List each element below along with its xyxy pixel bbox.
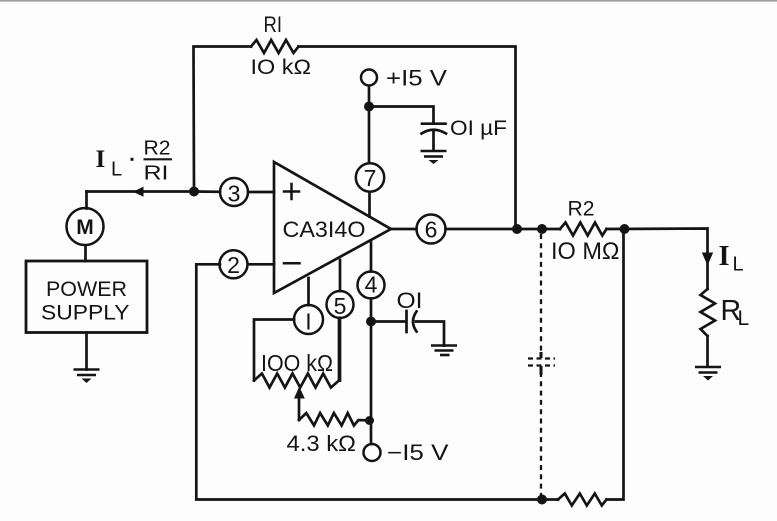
svg-text:I: I — [719, 241, 730, 272]
svg-text:R2: R2 — [568, 198, 595, 221]
svg-text:R2: R2 — [144, 138, 171, 160]
svg-text:4.3 kΩ: 4.3 kΩ — [287, 431, 357, 456]
svg-text:RI: RI — [264, 12, 283, 37]
svg-text:IO MΩ: IO MΩ — [551, 238, 620, 265]
svg-text:IO kΩ: IO kΩ — [251, 56, 312, 79]
svg-text:IOO kΩ: IOO kΩ — [261, 350, 333, 376]
svg-text:I: I — [305, 309, 311, 335]
svg-text:L: L — [733, 254, 744, 276]
svg-text:2: 2 — [227, 252, 240, 278]
svg-text:5: 5 — [334, 293, 347, 319]
svg-text:L: L — [738, 307, 750, 330]
svg-text:3: 3 — [228, 181, 241, 207]
svg-text:7: 7 — [364, 165, 377, 191]
svg-text:+I5 V: +I5 V — [386, 66, 447, 91]
svg-text:6: 6 — [425, 217, 438, 243]
svg-text:L: L — [111, 159, 122, 181]
svg-text:4: 4 — [365, 272, 378, 298]
svg-text:SUPPLY: SUPPLY — [41, 301, 130, 325]
svg-text:CA3I4O: CA3I4O — [283, 217, 366, 242]
svg-text:RI: RI — [144, 163, 169, 185]
svg-text:−I5 V: −I5 V — [387, 440, 449, 465]
svg-text:M: M — [76, 216, 94, 239]
svg-text:OI µF: OI µF — [450, 117, 507, 140]
svg-text:POWER: POWER — [46, 277, 127, 301]
svg-text:OI: OI — [397, 288, 423, 313]
svg-text:I: I — [96, 146, 106, 173]
